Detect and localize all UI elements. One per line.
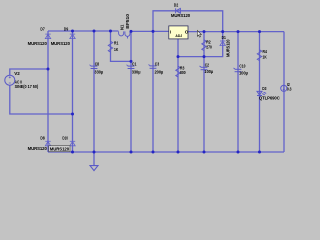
svg-text:D1: D1 bbox=[222, 35, 227, 40]
diode D9 bbox=[70, 34, 75, 39]
svg-text:MURS120: MURS120 bbox=[171, 13, 191, 18]
svg-text:100µ: 100µ bbox=[239, 71, 248, 76]
wire: R1 branch bbox=[111, 31, 132, 61]
wire: D2 loop over regulator bbox=[153, 11, 223, 32]
diode D1 bbox=[220, 41, 225, 46]
svg-text:D7: D7 bbox=[40, 26, 45, 31]
capacitor C10 bbox=[233, 68, 241, 72]
voltage source V2 bbox=[5, 75, 15, 85]
capacitor C2 bbox=[199, 66, 207, 70]
svg-text:BF510: BF510 bbox=[125, 13, 130, 28]
diode D10 bbox=[70, 141, 75, 146]
svg-text:ADJ: ADJ bbox=[175, 34, 182, 38]
wire: R3 column x=178 bbox=[177, 57, 179, 152]
svg-text:D2: D2 bbox=[174, 2, 179, 7]
svg-text:MURS120: MURS120 bbox=[28, 146, 48, 151]
svg-text:330µ: 330µ bbox=[132, 69, 141, 74]
wire: V2 bottom lead to bridge bbox=[10, 85, 73, 114]
svg-text:C10: C10 bbox=[239, 64, 245, 69]
diode D8 bbox=[45, 141, 50, 146]
svg-text:270: 270 bbox=[206, 45, 212, 50]
wire: R2/C2 column x=204 bbox=[203, 32, 205, 152]
LED D3 bbox=[257, 91, 266, 95]
wire: D9/D10 column x=72.5 bbox=[72, 31, 74, 152]
wire: C1 column x=131 bbox=[130, 31, 132, 152]
wire: top-left bus y=31 from corner above D7 to inductor bbox=[48, 30, 118, 32]
capacitor C8 bbox=[89, 65, 97, 69]
svg-text:D10: D10 bbox=[62, 135, 68, 140]
wire: bottom ground bus y=152 bbox=[48, 151, 284, 153]
wire: C8 column x=94 bbox=[93, 31, 95, 152]
svg-text:SINE(0 17 50): SINE(0 17 50) bbox=[15, 84, 39, 89]
svg-text:330µ: 330µ bbox=[94, 69, 103, 74]
wire: C3 / D2-riser column x=153 bbox=[152, 31, 154, 152]
svg-text:V2: V2 bbox=[14, 71, 20, 76]
resistor R1 bbox=[108, 41, 112, 52]
svg-text:C2: C2 bbox=[205, 62, 210, 67]
svg-text:R4: R4 bbox=[263, 49, 268, 54]
regulator U1 box bbox=[169, 26, 188, 39]
svg-text:MURS120: MURS120 bbox=[51, 41, 71, 46]
svg-text:O: O bbox=[185, 29, 189, 34]
svg-text:1K: 1K bbox=[263, 55, 268, 60]
svg-text:N1: N1 bbox=[119, 24, 124, 30]
wire: D7/D8 column x=48 bbox=[47, 31, 49, 152]
wire: C10 column x=238 bbox=[237, 32, 239, 152]
svg-text:MURS120: MURS120 bbox=[50, 146, 70, 151]
wire: ADJ pin down from box bbox=[178, 32, 223, 57]
svg-text:C1: C1 bbox=[132, 62, 137, 67]
svg-text:100µ: 100µ bbox=[204, 69, 213, 74]
svg-text:0.3: 0.3 bbox=[287, 86, 292, 91]
svg-text:I: I bbox=[170, 30, 171, 35]
current source I2 bbox=[281, 85, 287, 91]
mouse cursor bbox=[197, 31, 201, 38]
svg-text:MURS120: MURS120 bbox=[28, 41, 48, 46]
svg-text:R1: R1 bbox=[114, 40, 119, 45]
inductor N1 bbox=[119, 31, 124, 36]
svg-text:C8: C8 bbox=[95, 62, 100, 67]
svg-text:MURS120: MURS120 bbox=[225, 39, 230, 57]
diode D2 bbox=[175, 8, 177, 13]
capacitor C1 bbox=[126, 65, 134, 69]
resistor R2 bbox=[202, 40, 206, 51]
svg-text:C3: C3 bbox=[155, 62, 160, 67]
svg-text:D8: D8 bbox=[40, 135, 45, 140]
svg-text:200µ: 200µ bbox=[155, 69, 164, 74]
svg-text:QTLP690C: QTLP690C bbox=[259, 96, 281, 101]
resistor R4 bbox=[257, 50, 261, 61]
wire: bus from inductor right to regulator input bbox=[131, 30, 169, 32]
svg-text:D3: D3 bbox=[262, 86, 267, 91]
svg-text:D9: D9 bbox=[64, 26, 69, 31]
resistor R3 bbox=[176, 66, 180, 77]
wire: I2 column x=284 bbox=[283, 32, 285, 152]
svg-text:1K: 1K bbox=[114, 47, 119, 52]
diode D7 bbox=[45, 34, 50, 39]
wire: R4/LED column x=259.5 bbox=[259, 32, 261, 152]
capacitor C3 bbox=[148, 65, 156, 69]
svg-text:800: 800 bbox=[180, 70, 186, 75]
ground bbox=[93, 152, 95, 165]
wire: V2 top lead to bridge bbox=[10, 69, 48, 75]
wire: regulator output rail to right edge column bbox=[188, 31, 284, 33]
